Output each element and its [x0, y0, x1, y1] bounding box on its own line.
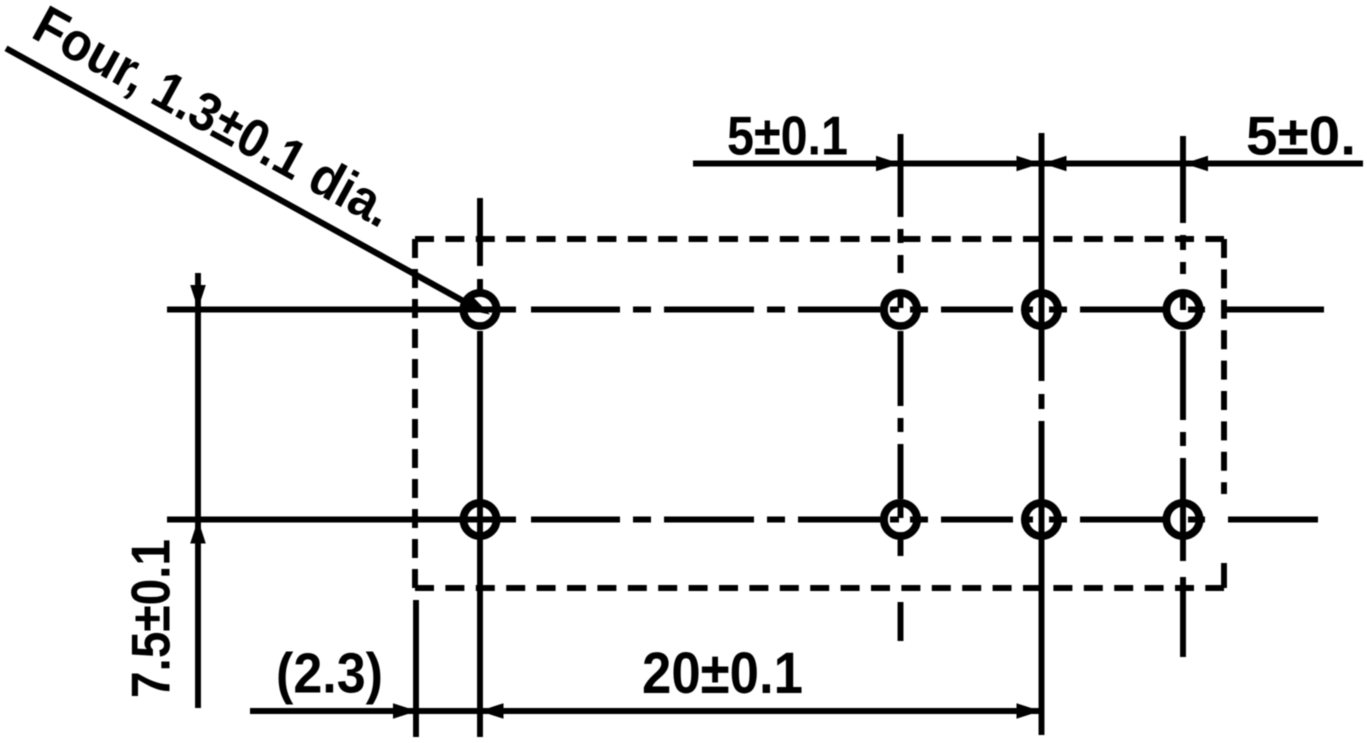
- hole H4 top x=1183: [1166, 293, 1199, 326]
- left dim arrow pointing down: [190, 285, 206, 309]
- hole H2 top x=900: [884, 293, 917, 326]
- top dim arrow at col2 pointing right: [876, 156, 900, 172]
- leader arrowhead: [460, 293, 490, 315]
- center line row 2 (y=519.5): [167, 517, 1318, 523]
- top dim arrow at col4 pointing left: [1184, 156, 1208, 172]
- center line column 4 (x=1183): [1180, 136, 1186, 657]
- hole H7 bottom x=1041: [1025, 503, 1058, 536]
- leader line Four, 1.3±0.1 dia.: [6, 48, 465, 302]
- svg-text:20±0.1: 20±0.1: [642, 641, 803, 706]
- bottom dim extension line at rect left edge: [413, 600, 419, 737]
- svg-text:5±0.1: 5±0.1: [727, 105, 848, 167]
- bottom dimension line (2.3) / 20±0.1: [250, 708, 1041, 714]
- top dim bowtie arrows at col3: [1017, 156, 1041, 172]
- bottom dim arrow pointing left at x=480: [480, 703, 504, 719]
- hole H1 top-left: [463, 293, 496, 326]
- svg-text:7.5±0.1: 7.5±0.1: [120, 539, 182, 698]
- svg-text:5±0.: 5±0.: [1246, 105, 1356, 167]
- bottom dim arrow pointing right at x=417: [393, 703, 417, 719]
- dashed component outline rectangle: [415, 239, 1224, 588]
- hole H5 bottom-left: [463, 503, 496, 536]
- center line column 2 (x=900.5): [898, 134, 904, 641]
- center line column 1 (x=480): [477, 198, 483, 737]
- svg-text:(2.3): (2.3): [276, 642, 383, 706]
- hole H3 top x=1041: [1025, 293, 1058, 326]
- hole H6 bottom x=900: [884, 503, 917, 536]
- left dimension line 7.5±0.1: [195, 273, 201, 708]
- center line row 1 (y=309.5): [167, 307, 1324, 313]
- top dimension line 5±0.1 / 5±0.: [693, 161, 1363, 167]
- left dim arrow pointing up: [190, 520, 206, 544]
- center line / extension column 3 (x=1041.5): [1039, 133, 1045, 735]
- bottom dim arrow pointing right at x=1041: [1017, 703, 1041, 719]
- hole H8 bottom x=1183: [1166, 503, 1199, 536]
